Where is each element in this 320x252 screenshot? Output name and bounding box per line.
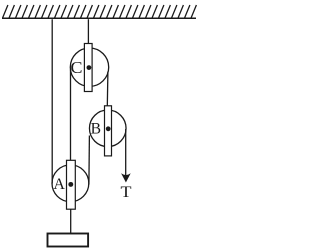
pulley A bracket bbox=[67, 160, 76, 209]
wire hanger from ceiling to pulley C bracket bbox=[87, 19, 89, 44]
wire rope from pulley C left side down to pulley A bracket bbox=[70, 70, 72, 162]
pulley A axle dot bbox=[68, 182, 73, 187]
ceiling hatching bbox=[3, 5, 197, 18]
pulley C wheel bbox=[70, 48, 108, 86]
weight block bbox=[48, 234, 89, 247]
ceiling line bbox=[2, 17, 196, 19]
pulley B bracket bbox=[105, 106, 112, 156]
wire rope from pulley A right side up to pulley B left side bbox=[88, 136, 91, 185]
tension arrow head bbox=[121, 173, 131, 182]
pulley B axle dot bbox=[106, 126, 111, 131]
pulley B wheel bbox=[89, 110, 126, 147]
svg-text:C: C bbox=[71, 58, 83, 77]
wire rope from ceiling to pulley A left tangent bbox=[51, 19, 53, 183]
wire rope from pulley A bracket down to weight bbox=[70, 209, 72, 233]
pulley C bracket bbox=[84, 44, 92, 92]
wire rope from pulley C right side down to pulley B bracket bbox=[106, 72, 109, 107]
svg-text:T: T bbox=[121, 184, 132, 201]
pulley C axle dot bbox=[87, 65, 92, 70]
svg-text:B: B bbox=[91, 121, 101, 138]
tension arrow line T bbox=[125, 129, 127, 177]
pulley A wheel bbox=[52, 165, 89, 202]
svg-text:A: A bbox=[53, 176, 65, 193]
